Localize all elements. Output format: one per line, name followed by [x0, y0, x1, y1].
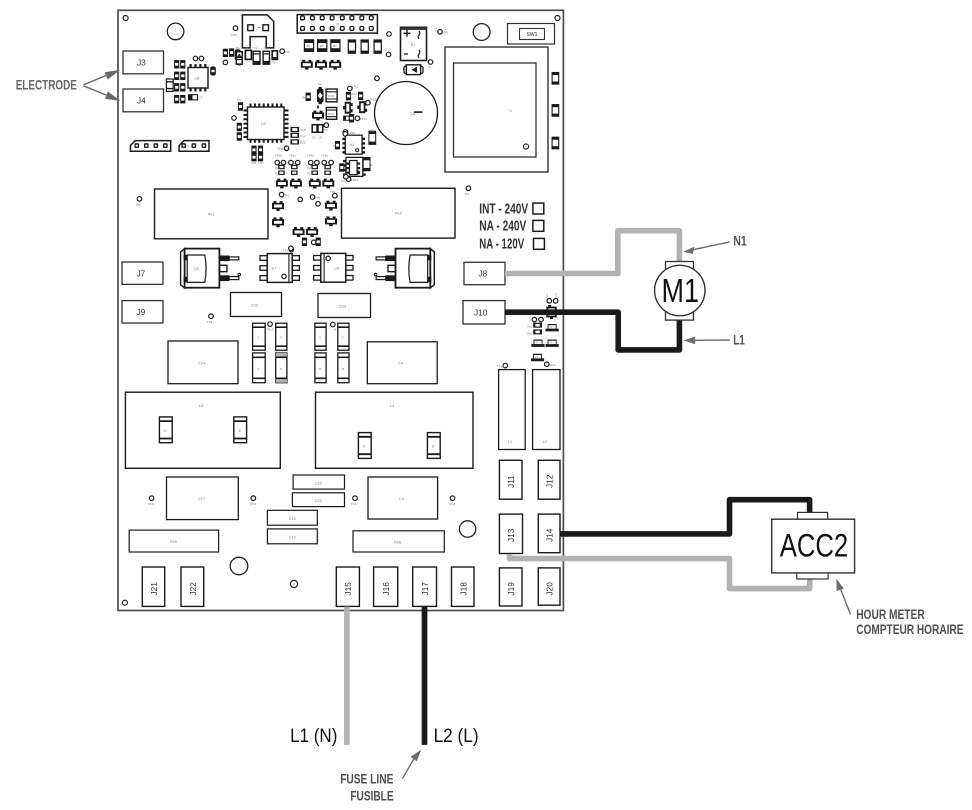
capacitor E2 [234, 417, 247, 443]
svg-text:J6: J6 [336, 22, 339, 26]
capacitor C8 large [375, 82, 438, 145]
varistor V1 [546, 324, 559, 331]
svg-text:NA - 240V: NA - 240V [479, 218, 526, 235]
svg-text:J19: J19 [506, 582, 516, 596]
switch SW1 [508, 24, 555, 45]
ic Q1 SO-8 near J3 [188, 64, 208, 92]
svg-text:TP18: TP18 [449, 502, 456, 506]
diode D1 [404, 65, 423, 75]
capacitor E3 [358, 433, 371, 459]
varistor V4 [531, 354, 544, 361]
connector J7 [122, 262, 163, 284]
inductor L1 tall [499, 370, 526, 450]
svg-text:J18: J18 [459, 582, 469, 596]
svg-text:TPa: TPa [348, 133, 354, 137]
connector J21 [142, 567, 164, 606]
svg-text:J16: J16 [381, 582, 391, 596]
electrolytic R18 cluster [302, 82, 337, 104]
fuse F5 on wire [546, 305, 556, 319]
transistor q16 sot [272, 217, 284, 227]
svg-text:L4: L4 [390, 404, 394, 408]
sip header P1 [130, 141, 170, 152]
svg-text:TP6a: TP6a [289, 153, 296, 157]
microcontroller U2 QFP [244, 104, 289, 143]
resistor R49 [129, 530, 218, 552]
capacitor column right edge CE1 [552, 73, 559, 85]
transistor row sot23 q10-q13 [276, 179, 334, 189]
transistor Q9 sot89 [357, 92, 376, 113]
svg-text:HOUR METER: HOUR METER [856, 607, 925, 623]
wire gray J8 to motor N1 [505, 231, 679, 274]
svg-text:C18: C18 [289, 517, 296, 521]
svg-text:U6: U6 [195, 77, 200, 81]
svg-text:TP1: TP1 [285, 193, 291, 197]
wire black J10 to motor L1 [505, 312, 679, 350]
svg-text:C5: C5 [318, 136, 322, 140]
optocoupler U8 [314, 253, 353, 282]
test points above Q1 [193, 56, 198, 61]
test point above L1 [497, 363, 508, 368]
relay RL2 [342, 188, 456, 238]
capacitor row C1-C3 dark [304, 39, 341, 52]
transistor Q7 sot with pads [312, 106, 324, 121]
capacitor quad left group [253, 322, 287, 383]
inductor L2 tall [533, 370, 560, 450]
checkbox NA-240V [533, 220, 544, 231]
svg-text:C17: C17 [198, 497, 205, 501]
svg-text:A: A [187, 144, 189, 148]
svg-text:R3: R3 [333, 44, 337, 48]
resistor R64 [528, 329, 542, 335]
connector J14 [538, 514, 560, 553]
svg-text:C15: C15 [251, 161, 257, 165]
svg-text:R31: R31 [275, 172, 281, 176]
svg-text:R49: R49 [170, 540, 177, 544]
test point TP6 [277, 146, 289, 151]
svg-text:RL1: RL1 [208, 213, 215, 217]
svg-text:M1: M1 [662, 272, 700, 309]
capacitor C13 [166, 79, 173, 91]
svg-text:D4: D4 [444, 31, 448, 35]
capacitor E4 [427, 433, 440, 459]
checkbox NA-120V [534, 238, 545, 249]
small hole F1 [290, 580, 297, 587]
svg-text:J13: J13 [506, 528, 516, 542]
parts right of U5 [363, 158, 372, 171]
svg-text:E: E [371, 163, 373, 167]
transistor q14 sot [272, 201, 284, 211]
arrow hour meter [836, 579, 850, 615]
svg-text:J3: J3 [137, 57, 146, 67]
resistor pair R40 [343, 114, 367, 122]
svg-text:J22: J22 [188, 582, 198, 596]
capacitor C18 [267, 510, 317, 525]
test point TP3 [375, 76, 380, 81]
svg-text:Da: Da [236, 46, 240, 50]
ic U9 above relay RL2 [347, 161, 361, 175]
capacitor row C9-C11 outline [348, 40, 381, 53]
test point below-right of bridge [428, 60, 433, 69]
mounting hole mid-right [459, 521, 475, 537]
test point TP left of relay RL1 [136, 197, 142, 207]
svg-text:TP15: TP15 [148, 502, 155, 506]
capacitor C7 below Q1 [189, 95, 203, 100]
svg-text:R18: R18 [328, 94, 334, 98]
svg-text:U8: U8 [334, 266, 339, 270]
svg-text:INT - 240V: INT - 240V [479, 200, 528, 217]
usb-style connector K1 [242, 15, 273, 48]
svg-text:R62: R62 [528, 332, 534, 336]
connector J13 [499, 514, 522, 553]
svg-text:J9: J9 [137, 307, 146, 317]
inductor L4 block [316, 392, 474, 468]
svg-text:R22: R22 [300, 141, 306, 145]
test point pair right of J10 top [545, 293, 558, 303]
PCB board outline [118, 10, 563, 610]
connector J20 [538, 568, 560, 605]
svg-text:FUSE LINE: FUSE LINE [340, 771, 393, 787]
resistor R12 [326, 108, 336, 120]
transformer T1 inner [454, 63, 537, 157]
svg-text:Ca: Ca [254, 46, 258, 50]
capacitor column right edge CE2 [552, 105, 559, 117]
svg-text:SW1: SW1 [527, 32, 538, 38]
ic U4 SO-8 [342, 135, 365, 154]
connector J11 [499, 460, 522, 499]
svg-text:C34: C34 [369, 129, 375, 133]
svg-text:R2: R2 [320, 44, 324, 48]
svg-text:C26: C26 [315, 482, 322, 486]
test point above J8 [465, 186, 471, 196]
svg-text:TP4: TP4 [315, 196, 321, 200]
motor M1 circle [655, 265, 705, 315]
svg-text:ELECTRODE: ELECTRODE [16, 78, 77, 93]
arrow fuse line [402, 750, 421, 779]
svg-text:TPd: TPd [283, 248, 289, 252]
svg-text:TP13: TP13 [497, 365, 504, 369]
svg-text:L2: L2 [543, 440, 547, 444]
capacitor block C23 [318, 294, 371, 318]
test points between relays [279, 190, 337, 206]
connector J12 [538, 460, 560, 499]
wire gray J13 to ACC2 [510, 554, 810, 588]
motor M1 body [666, 262, 694, 321]
test point row TP group B [307, 153, 333, 165]
svg-text:TP14: TP14 [360, 117, 367, 121]
wire gray J15 to L1(N) [344, 607, 350, 745]
transistor q17 sot [325, 216, 337, 226]
svg-text:Cher: Cher [550, 363, 556, 367]
test point left of bridge [387, 32, 392, 37]
resistor column right of U2 [291, 127, 306, 145]
svg-text:NA - 120V: NA - 120V [479, 236, 524, 253]
test point TP row bottom [148, 496, 456, 506]
capacitor column right edge CE3 [552, 137, 559, 149]
svg-text:C20: C20 [258, 161, 264, 165]
svg-text:Q2: Q2 [194, 267, 199, 271]
connector J18 [452, 567, 475, 606]
svg-text:V4: V4 [535, 355, 539, 359]
svg-text:J21: J21 [149, 582, 159, 596]
svg-text:L1: L1 [733, 332, 745, 347]
wire black J14 to ACC2 [560, 500, 810, 534]
arrow L1 [684, 337, 730, 345]
ACC2 box [772, 519, 855, 573]
svg-text:C25: C25 [315, 499, 322, 503]
capacitor C19 [267, 529, 317, 544]
svg-text:TP04: TP04 [351, 178, 358, 182]
test point below C23 right [342, 339, 348, 349]
svg-text:C5: C5 [399, 497, 404, 501]
test point TP5 [231, 26, 238, 38]
part left of U5 [339, 163, 344, 171]
bridge rectifier B1 [401, 27, 427, 60]
svg-text:V3: V3 [549, 341, 553, 345]
mounting hole bottom-center [230, 557, 248, 575]
svg-text:C: C [333, 144, 335, 148]
svg-text:U7: U7 [272, 267, 277, 271]
mounting hole top-left [123, 16, 128, 21]
svg-text:C4: C4 [398, 362, 403, 366]
svg-text:TP6: TP6 [277, 147, 283, 151]
test point below C22 left [207, 314, 213, 324]
svg-text:TP3: TP3 [207, 320, 213, 324]
inductor L3 block [125, 392, 280, 468]
svg-text:C14: C14 [300, 134, 306, 138]
svg-text:CL: CL [264, 46, 268, 50]
diode D6 right of Q1 [210, 67, 216, 76]
mounting hole bottom-left [122, 600, 127, 605]
transformer hole [523, 144, 528, 149]
connector J16 [374, 567, 398, 606]
svg-text:R33: R33 [307, 172, 313, 176]
transistor Q8 sot89 [343, 85, 359, 114]
svg-text:R24: R24 [275, 166, 281, 170]
transistor q15 sot [325, 201, 337, 211]
resistor RA6 [353, 531, 444, 552]
transformer T1 outer [445, 47, 548, 172]
capacitor pair C30 C31 [312, 123, 329, 140]
test point above relay RL2 [341, 175, 348, 184]
test point above U4 [343, 132, 353, 137]
svg-text:J17: J17 [420, 582, 430, 596]
capacitor block C5 [368, 477, 438, 519]
capacitor block C4 [367, 342, 437, 384]
svg-text:ACC2: ACC2 [780, 528, 849, 564]
wire black J17 to L2(L) [422, 607, 428, 745]
capacitor E1 [159, 417, 172, 443]
svg-text:TPe: TPe [341, 180, 347, 184]
svg-text:J11: J11 [506, 475, 516, 488]
svg-text:RL2: RL2 [395, 212, 402, 216]
svg-text:TP4a: TP4a [307, 153, 314, 157]
svg-text:TP12: TP12 [267, 328, 274, 332]
svg-text:R13: R13 [352, 92, 358, 96]
mounting hole large A [167, 23, 184, 40]
svg-text:R12: R12 [328, 112, 334, 116]
ACC2 top tab [798, 512, 828, 519]
capacitor block C22 [231, 293, 282, 317]
resistor grid A [275, 165, 298, 176]
svg-text:TPq: TPq [285, 50, 291, 54]
svg-text:U4: U4 [350, 143, 354, 147]
svg-text:TP5: TP5 [231, 34, 237, 38]
capacitor block C17 [167, 477, 239, 520]
svg-text:C10: C10 [300, 128, 306, 132]
svg-text:TP17: TP17 [351, 502, 358, 506]
svg-text:C7: C7 [199, 96, 203, 100]
connector J8 [464, 262, 505, 284]
svg-text:J15: J15 [343, 582, 353, 596]
svg-text:L3: L3 [199, 404, 203, 408]
header J6 16-pin [297, 15, 377, 33]
svg-text:J4: J4 [137, 95, 146, 105]
svg-text:TP0: TP0 [330, 190, 336, 194]
connector J17 [413, 567, 437, 606]
svg-text:C19: C19 [289, 536, 296, 540]
sip header P2 [179, 141, 209, 152]
connector J3 [123, 51, 164, 74]
svg-text:J20: J20 [545, 582, 555, 596]
resistor cluster left of Q1 [174, 60, 185, 103]
transistor Q2 TO-220 [181, 249, 241, 289]
svg-text:V2: V2 [535, 341, 539, 345]
arrow N1 [683, 242, 730, 254]
svg-text:FUSIBLE: FUSIBLE [350, 789, 393, 805]
svg-text:TP2: TP2 [136, 203, 142, 207]
capacitor C6 column left of U2 [232, 98, 243, 141]
varistor V3 [546, 340, 559, 347]
connector J9 [122, 301, 163, 323]
svg-text:C6: C6 [237, 98, 241, 102]
svg-text:V1: V1 [549, 325, 553, 329]
connector J22 [181, 567, 204, 606]
mounting hole large B [473, 24, 490, 41]
svg-text:RA6: RA6 [394, 541, 401, 545]
svg-text:L1: L1 [508, 440, 512, 444]
optocoupler U7 [260, 254, 299, 283]
svg-text:T1: T1 [508, 109, 512, 113]
test point pair mid [532, 317, 543, 322]
capacitor block C24 [168, 341, 238, 384]
connector J10 [463, 301, 505, 324]
capacitor C26 [293, 475, 344, 489]
svg-text:N1: N1 [733, 233, 747, 248]
component cluster above J3 [223, 48, 241, 64]
varistor V2 [531, 340, 544, 347]
svg-text:C24: C24 [198, 362, 205, 366]
svg-text:J7: J7 [137, 268, 146, 278]
test point above L2 [545, 362, 556, 367]
svg-text:R61: R61 [528, 324, 534, 328]
test point TP9 [386, 52, 391, 57]
transistor Q3 TO-220 mirrored [374, 249, 434, 289]
svg-text:J8: J8 [479, 269, 488, 279]
svg-text:R4: R4 [302, 96, 306, 100]
capacitor C25 [292, 493, 344, 507]
svg-text:C23: C23 [339, 305, 346, 309]
svg-text:J10: J10 [474, 307, 488, 317]
svg-text:R1: R1 [307, 44, 311, 48]
svg-text:R26: R26 [307, 166, 313, 170]
connector J19 [499, 568, 522, 606]
capacitor row C1 C2 C4 CL above J3 right [236, 46, 291, 66]
svg-text:TP8a: TP8a [321, 153, 328, 157]
test point below U5 [346, 177, 358, 182]
svg-text:COMPTEUR HORAIRE: COMPTEUR HORAIRE [856, 622, 963, 638]
svg-text:C3: C3 [312, 136, 316, 140]
connector J4 [123, 89, 164, 112]
svg-text:R2: R2 [272, 61, 276, 65]
arrow electrode to J4 [84, 86, 121, 101]
svg-text:L2 (L): L2 (L) [434, 725, 479, 747]
svg-text:TP2a: TP2a [275, 153, 282, 157]
transistor row Q4-Q6 sot23 [301, 60, 341, 70]
test point above opto U7 [283, 247, 294, 252]
relay RL1 [155, 189, 269, 239]
resistor R62 [528, 323, 542, 329]
svg-text:J12: J12 [545, 474, 555, 488]
svg-text:Da: Da [318, 82, 322, 86]
svg-text:L1 (N): L1 (N) [290, 725, 337, 747]
test point TP7 [438, 30, 448, 35]
capacitor pairs below U2 [251, 146, 264, 165]
arrow electrode to J3 [84, 70, 121, 85]
resistor pair left of U4 [333, 141, 340, 149]
capacitor quad right group [315, 322, 349, 382]
svg-text:TPb: TPb [465, 192, 471, 196]
resistor grid B [307, 165, 331, 176]
svg-text:TP16: TP16 [250, 502, 257, 506]
ACC2 bottom tab [797, 573, 828, 579]
svg-text:J14: J14 [545, 528, 555, 542]
svg-text:C8: C8 [410, 112, 415, 116]
ic U5 SO-8 [343, 157, 366, 176]
svg-text:C22: C22 [251, 304, 258, 308]
test point row TP group A [275, 153, 300, 165]
svg-text:B1: B1 [411, 43, 415, 47]
checkbox INT-240V [533, 203, 544, 214]
mounting hole top-right [555, 16, 560, 21]
svg-text:U2: U2 [261, 122, 266, 126]
svg-text:TPL1: TPL1 [370, 98, 377, 102]
capacitor right of U4 [369, 129, 376, 144]
small parts below pair [289, 238, 321, 251]
connector J15 [336, 567, 359, 606]
transistor pair q18 q19 [293, 227, 319, 237]
test point TP10 [343, 130, 355, 135]
svg-text:TPL2: TPL2 [352, 85, 359, 89]
